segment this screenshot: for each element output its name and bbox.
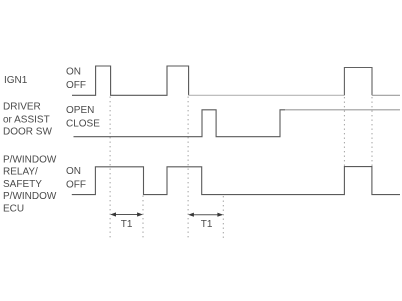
svg-text:or ASSIST: or ASSIST: [3, 114, 50, 125]
svg-text:SAFETY: SAFETY: [3, 179, 42, 190]
svg-text:OFF: OFF: [66, 80, 86, 91]
dashed marker at IGN1 third pulse rise: [343, 97, 345, 166]
dashed marker at IGN1 first OFF edge: [109, 97, 111, 239]
T1 arrow right: [188, 213, 223, 217]
svg-text:OFF: OFF: [66, 180, 86, 191]
dashed marker at IGN1 third pulse fall: [371, 97, 373, 166]
svg-text:T1: T1: [121, 219, 133, 230]
dashed marker at relay first OFF edge: [142, 196, 144, 239]
svg-text:T1: T1: [201, 219, 213, 230]
T1 arrow left: [110, 212, 143, 216]
wire door switch waveform dark part: [74, 110, 286, 137]
dashed marker at IGN1 second OFF edge: [187, 97, 189, 239]
svg-text:P/WINDOW: P/WINDOW: [3, 154, 57, 165]
svg-text:RELAY/: RELAY/: [3, 167, 38, 178]
wire door switch OPEN tail: [285, 109, 400, 111]
wire IGN1 waveform dark part: [72, 66, 189, 95]
svg-text:DRIVER: DRIVER: [3, 102, 41, 113]
wire IGN1 tail: [372, 94, 400, 96]
wire IGN1 pulse 3: [344, 68, 372, 96]
dashed marker at T1 end after second IGN OFF: [222, 196, 224, 238]
svg-text:ON: ON: [66, 66, 81, 77]
svg-text:OPEN: OPEN: [66, 105, 94, 116]
svg-text:ON: ON: [66, 166, 81, 177]
svg-text:IGN1: IGN1: [4, 75, 28, 86]
svg-text:CLOSE: CLOSE: [66, 118, 100, 129]
wire relay waveform: [72, 167, 400, 195]
svg-text:ECU: ECU: [3, 204, 24, 215]
svg-text:DOOR SW: DOOR SW: [3, 127, 52, 138]
wire IGN1 OFF baseline light gray: [189, 94, 345, 96]
svg-text:P/WINDOW: P/WINDOW: [3, 191, 57, 202]
